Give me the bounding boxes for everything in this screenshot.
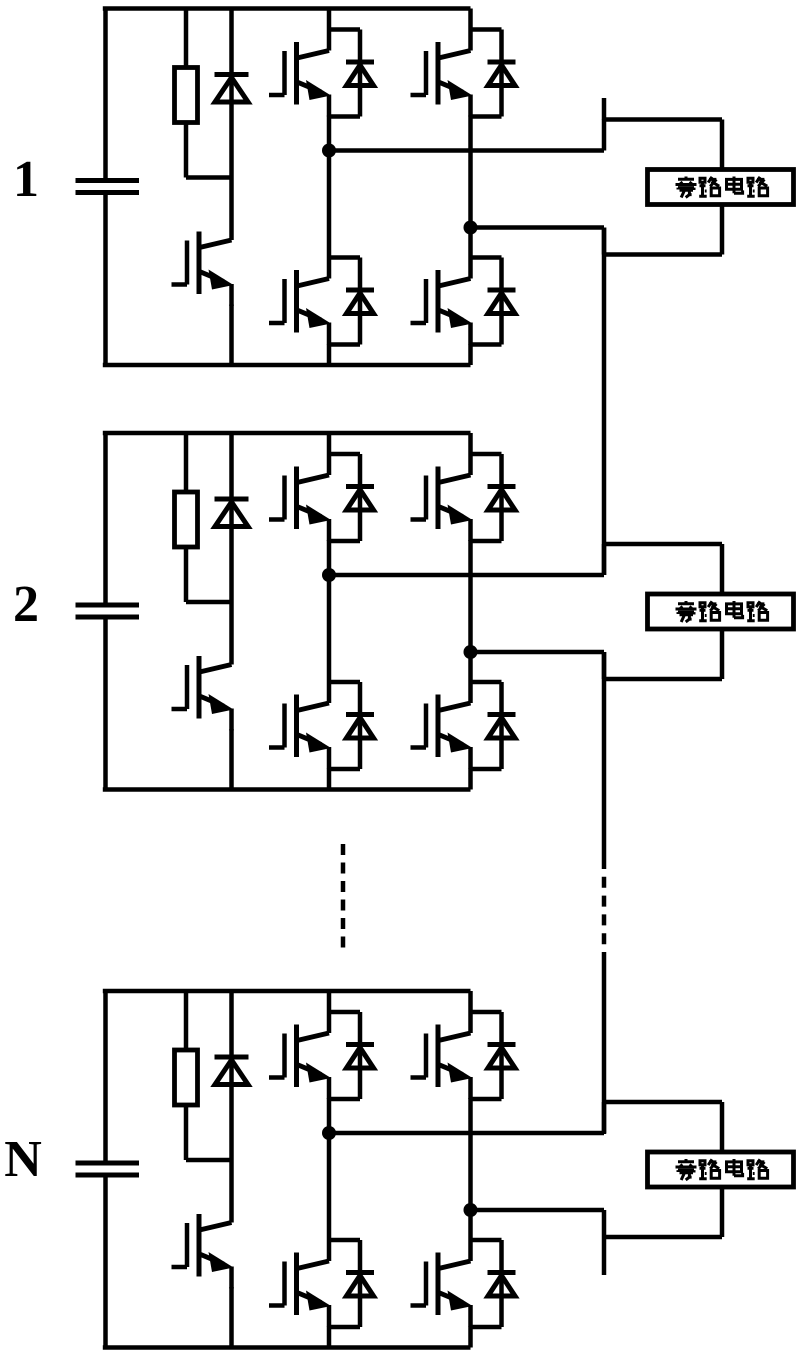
svg-text:1: 1 [13, 151, 39, 208]
svg-text:N: N [4, 1131, 42, 1188]
svg-text:2: 2 [13, 576, 39, 633]
